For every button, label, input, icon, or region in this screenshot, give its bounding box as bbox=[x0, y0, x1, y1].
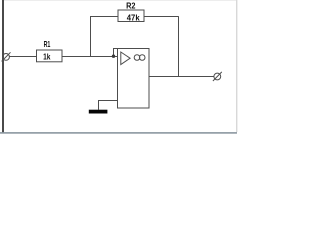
svg-text:1k: 1k bbox=[43, 52, 51, 62]
svg-text:R2: R2 bbox=[126, 1, 136, 11]
svg-text:R1: R1 bbox=[44, 39, 51, 49]
svg-text:47k: 47k bbox=[127, 13, 140, 23]
